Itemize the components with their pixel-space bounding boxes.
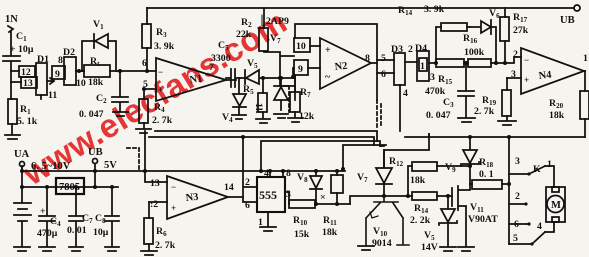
resistor R2 22k: [236, 8, 294, 86]
resistor R10 15k: [289, 200, 350, 240]
arrow D1 to D2: [47, 78, 54, 84]
svg-text:3. 9k: 3. 9k: [424, 4, 445, 15]
capacitor C8 10u: [93, 187, 119, 246]
IC block D4 pins 2 1 3: [405, 43, 436, 83]
svg-text:13: 13: [23, 78, 33, 89]
svg-text:−: −: [158, 67, 163, 77]
resistor R15 470k: [425, 59, 468, 97]
zener V5 14V: [421, 196, 457, 253]
svg-text:11: 11: [48, 90, 57, 101]
svg-text:6: 6: [142, 58, 147, 69]
resistor Rt 18k: [76, 56, 120, 88]
svg-text:UB: UB: [560, 15, 575, 26]
ground under R5: [256, 119, 270, 123]
svg-text:12k: 12k: [299, 111, 315, 122]
wire 555 pin3: [285, 189, 291, 204]
svg-text:18k: 18k: [88, 77, 104, 88]
svg-text:3300: 3300: [211, 53, 231, 64]
svg-text:1: 1: [420, 61, 425, 72]
IC block D2 pins 8 9 10: [52, 47, 86, 89]
capacitor C3 0.047: [426, 63, 474, 121]
svg-text:5: 5: [381, 53, 386, 64]
svg-text:N2: N2: [334, 61, 348, 73]
junction dot R3 pin6: [142, 69, 149, 91]
resistor R12 18k: [389, 156, 470, 196]
svg-text:4: 4: [264, 168, 269, 179]
wire UB to supply: [94, 171, 96, 187]
resistor R16 100k: [463, 33, 521, 67]
ground under C4: [39, 247, 55, 251]
resistor R19 2.7k: [474, 78, 511, 120]
svg-text:2. 7k: 2. 7k: [152, 115, 173, 126]
svg-text:14V: 14V: [421, 242, 438, 253]
svg-text:V90AT: V90AT: [468, 214, 498, 225]
resistor R4 2.7k: [139, 89, 173, 128]
junction dot gate: [446, 164, 472, 198]
diode V8: [297, 171, 322, 204]
svg-text:N4: N4: [538, 70, 553, 82]
svg-text:18k: 18k: [410, 175, 426, 186]
staircase link wires: [343, 134, 429, 169]
svg-text:555: 555: [259, 188, 277, 202]
wire N3 pin13 feed: [145, 131, 167, 182]
diode V3: [274, 78, 288, 110]
timer 555: [257, 168, 291, 228]
svg-text:3. 9k: 3. 9k: [154, 41, 175, 52]
labels 555 pins 2 6: [245, 177, 250, 211]
pad pin 10: [294, 38, 320, 52]
ground under V10: [358, 246, 374, 250]
svg-text:1N: 1N: [5, 14, 18, 25]
svg-text:0. 1: 0. 1: [479, 169, 494, 180]
svg-text:+: +: [158, 85, 163, 95]
svg-text:8: 8: [58, 55, 63, 66]
IC box around N2: [295, 24, 377, 100]
svg-text:+: +: [40, 206, 46, 217]
ground under 555 pin1: [260, 227, 276, 231]
svg-text:470k: 470k: [425, 86, 446, 97]
op-amp N4 pins 2 3 1: [507, 48, 588, 94]
resistor R5 1k: [243, 78, 267, 118]
ground under C3: [458, 118, 475, 122]
junction dot V5 out: [261, 75, 295, 80]
ground under R19: [498, 121, 516, 125]
svg-text:18k: 18k: [549, 110, 565, 121]
relay K1 contacts: [509, 137, 554, 244]
svg-text:15k: 15k: [294, 229, 310, 240]
svg-text:0. 047: 0. 047: [79, 109, 104, 120]
junction dots Rt: [77, 69, 122, 73]
ground under R6: [141, 251, 157, 255]
wire stubs to D1 pads: [11, 71, 21, 82]
label 2AP9 V7: [262, 15, 289, 45]
middle link wire M3: [261, 141, 380, 171]
svg-text:6: 6: [245, 200, 250, 211]
svg-text:10: 10: [76, 78, 86, 89]
regulator 7805: [56, 178, 84, 194]
svg-text:2: 2: [515, 191, 520, 202]
junction node A: [434, 61, 438, 65]
junction dots base wire: [314, 194, 410, 206]
op-amp N3 pins 13 12 14: [149, 176, 243, 219]
wire base line: [350, 196, 452, 204]
svg-text:5V: 5V: [104, 160, 117, 171]
svg-text:470μ: 470μ: [37, 228, 58, 239]
relay rail wire: [405, 134, 585, 137]
svg-text:+: +: [325, 45, 331, 56]
svg-text:6: 6: [381, 69, 386, 80]
svg-text:27k: 27k: [513, 25, 529, 36]
svg-text:2. 7k: 2. 7k: [474, 106, 495, 117]
pad pin 9: [294, 60, 320, 100]
svg-text:14: 14: [224, 182, 234, 193]
wires N2 to D3 pins 5 6: [377, 53, 394, 80]
ground under V5: [440, 247, 456, 251]
capacitor C1 10u: [3, 31, 34, 99]
svg-text:13: 13: [150, 178, 160, 189]
capacitor C7 0.01: [67, 187, 93, 246]
junction dots supply: [20, 169, 263, 189]
battery: [14, 166, 31, 246]
svg-text:10μ: 10μ: [93, 227, 109, 238]
dashed link wire: [127, 148, 139, 171]
IC box dashed edge: [377, 100, 381, 128]
junction dots rail: [341, 135, 511, 186]
terminal UB top right: [560, 5, 580, 26]
middle link wire M2: [149, 137, 374, 145]
resistor R18 0.1: [470, 157, 509, 189]
svg-text:3: 3: [430, 72, 435, 83]
svg-text:9014: 9014: [372, 238, 392, 249]
svg-text:0. 047: 0. 047: [426, 110, 451, 121]
diode V4: [222, 78, 246, 124]
capacitor C2 0.047: [79, 71, 128, 120]
svg-text:−: −: [524, 55, 529, 65]
op-amp N1 pins 6 5 7: [142, 58, 236, 101]
svg-text:5: 5: [513, 233, 518, 244]
svg-text:9: 9: [298, 64, 303, 75]
ground under battery: [14, 247, 30, 251]
resistor R17 27k: [500, 8, 529, 63]
IC block D1 pins 12 13 11: [19, 54, 57, 101]
supply line wire: [22, 186, 118, 188]
junction dots node B: [464, 61, 507, 65]
svg-text:4: 4: [403, 88, 408, 99]
svg-text:1: 1: [547, 159, 552, 170]
ground under R4: [136, 129, 151, 133]
node 1N input terminal: [5, 14, 18, 32]
svg-text:UA: UA: [14, 149, 30, 160]
ground under R1: [5, 135, 20, 139]
svg-text:K: K: [533, 164, 541, 175]
svg-text:×: ×: [320, 192, 326, 203]
svg-text:3: 3: [515, 156, 520, 167]
capacitor C4 470u: [37, 187, 61, 246]
svg-text:N3: N3: [185, 192, 199, 204]
junction dots 555 supply: [268, 169, 339, 173]
MOSFET V11 V90AT: [452, 184, 498, 246]
diode V6: [470, 8, 500, 63]
resistor R6 2.7k: [144, 202, 176, 251]
svg-text:9: 9: [55, 69, 60, 80]
svg-text:2. 7k: 2. 7k: [155, 240, 176, 251]
svg-text:2: 2: [513, 49, 518, 60]
5V rail wire: [22, 170, 345, 172]
svg-text:+ 10μ: + 10μ: [10, 44, 34, 55]
relay contact dots: [524, 172, 533, 245]
resistor R14 3.9k top branch: [398, 4, 470, 63]
junction dot M2: [241, 135, 245, 139]
svg-text:10: 10: [296, 41, 306, 52]
svg-text:0. 01: 0. 01: [67, 225, 87, 236]
ground under R7: [288, 118, 303, 122]
svg-text:2AP9: 2AP9: [266, 16, 289, 27]
svg-text:100k: 100k: [464, 47, 485, 58]
svg-text:~: ~: [325, 72, 331, 83]
transistor V10 9014: [366, 196, 409, 249]
svg-text:4: 4: [537, 221, 542, 232]
resistor R3 3.9k: [142, 8, 175, 71]
svg-text:M: M: [551, 200, 561, 211]
ground under V3: [274, 114, 288, 118]
resistor R11 18k: [322, 171, 343, 238]
terminal UB 5V: [88, 147, 117, 171]
svg-text:8: 8: [365, 53, 370, 64]
svg-text:N1: N1: [189, 73, 203, 86]
svg-text:22k: 22k: [236, 29, 252, 40]
op-amp N2 pin 8: [320, 38, 377, 89]
resistor R1 5.1k: [8, 99, 38, 134]
wire node B to N1 pin6: [120, 70, 156, 72]
ground under V11: [458, 247, 474, 251]
motor M: [546, 187, 565, 222]
ground under C7: [69, 247, 83, 251]
svg-text:2: 2: [245, 177, 250, 188]
diode V7: [357, 150, 392, 196]
svg-text:8: 8: [286, 168, 291, 179]
svg-text:2. 2k: 2. 2k: [410, 215, 431, 226]
wire 555 input vertical: [243, 137, 257, 202]
terminal UA: [14, 149, 71, 172]
ground under V4: [232, 115, 246, 119]
svg-text:UB: UB: [88, 147, 103, 158]
svg-text:5. 1k: 5. 1k: [17, 116, 38, 127]
resistor R20 18k: [549, 71, 589, 137]
svg-text:1: 1: [583, 53, 588, 64]
dashed screen line: [288, 86, 290, 112]
ground under C8: [105, 247, 119, 251]
svg-text:+: +: [524, 75, 529, 85]
svg-text:18k: 18k: [322, 227, 338, 238]
capacitor 3300: [211, 40, 240, 87]
svg-text:+: +: [171, 203, 176, 213]
top rail wire: [147, 7, 574, 9]
zener V9: [445, 137, 479, 184]
IC block D3 pin 4: [391, 44, 408, 131]
svg-text:2: 2: [408, 44, 413, 55]
svg-text:−: −: [171, 182, 176, 192]
diode V5 2AP9: [240, 58, 295, 84]
wire input down: [10, 32, 12, 55]
ground under C2: [113, 112, 128, 116]
svg-text::2: :2: [150, 199, 158, 210]
diode V1: [82, 19, 116, 71]
resistor R14 2.2k: [410, 192, 437, 226]
resistor R7 12k: [290, 68, 315, 122]
middle link wire M1: [155, 131, 377, 141]
